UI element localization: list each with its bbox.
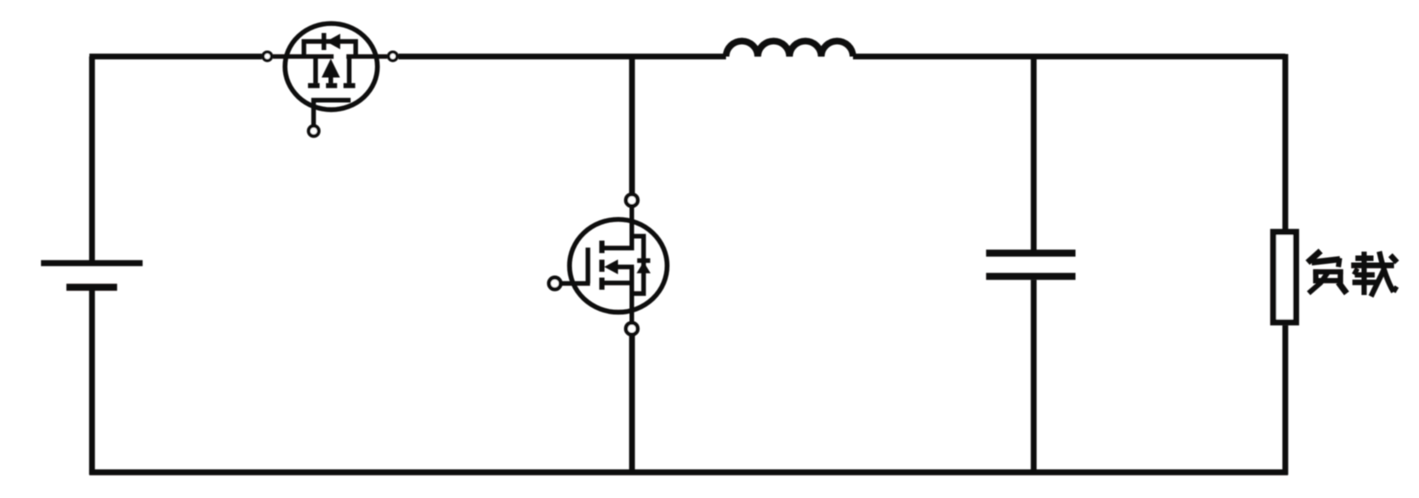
Q1 channel bar left (308, 83, 320, 88)
capacitor C1 bottom plate (986, 273, 1075, 280)
glyph 负 (1308, 251, 1347, 294)
Q1 gate terminal (309, 126, 319, 136)
wire: capacitor bottom stub (1031, 280, 1037, 473)
Q2 source contact line (602, 281, 632, 286)
Q1 channel bar right (344, 83, 356, 88)
Q1 right terminal (389, 52, 398, 61)
Q2 body diode cathode bar (637, 258, 650, 263)
Q2 body diode branch (632, 236, 644, 293)
wire: Q1 right terminal to inductor (398, 54, 726, 60)
battery V1 short plate (-) (66, 284, 117, 291)
wire: top from left corner to Q1 left terminal (89, 54, 262, 60)
Q1 body diode cathode bar (322, 33, 327, 50)
Q1 gate line (314, 100, 351, 124)
Q2 source terminal (626, 323, 638, 335)
Q2 channel bar middle (599, 260, 604, 272)
Q1 body diode triangle (326, 34, 340, 49)
wire: load bottom stub (1282, 325, 1288, 474)
Q1 channel bar middle (326, 83, 337, 88)
Q1 left terminal (263, 52, 272, 61)
mosfet Q2 (low-side switch) (549, 194, 667, 334)
Q2 drain terminal (626, 194, 638, 206)
Q2 internal drain wire (602, 206, 632, 248)
capacitor C1 top plate (986, 250, 1075, 257)
Q2 body arrow line (617, 265, 635, 270)
wire: capacitor top stub (1031, 55, 1037, 251)
wire: right vertical down to load (1282, 54, 1288, 229)
wire: left vertical bottom (battery - to bottom wire) (89, 290, 95, 474)
Q1 left channel contact (313, 57, 318, 84)
wire: Q2 drain stub from top wire (629, 55, 635, 195)
Q2 internal source wire (629, 267, 634, 323)
Q2 body circle (570, 219, 668, 312)
load resistor body (1273, 232, 1296, 323)
Q1 internal source-side wire (273, 54, 334, 59)
glyph 载 (1351, 252, 1397, 297)
wire: inductor to top-right corner (853, 54, 1285, 60)
Q2 gate lead (561, 281, 590, 286)
Q1 right channel contact (347, 57, 352, 84)
Q2 channel bar bottom (599, 278, 604, 290)
wire: bottom rail (89, 469, 1288, 475)
Q2 channel bar top (599, 241, 604, 254)
Q2 body diode triangle (637, 262, 651, 273)
Q1 internal drain-side wire (346, 54, 387, 59)
inductor L1 (726, 41, 853, 56)
Q2 gate bar (586, 248, 591, 284)
battery V1 long plate (+) (41, 260, 143, 266)
Q1 body diode box (304, 41, 356, 56)
Q2 body arrow (604, 260, 618, 275)
wire: Q2 source stub to bottom rail (629, 334, 635, 472)
wire: left vertical top (battery + to top-left corner) (89, 57, 95, 261)
Q1 body arrow (322, 59, 340, 78)
label 负载 (load) (1308, 251, 1397, 297)
Q1 body arrow stem (328, 76, 333, 83)
Q1 body circle (285, 24, 377, 110)
Q2 gate terminal (549, 278, 561, 290)
mosfet Q1 (high-side switch) (263, 24, 397, 137)
